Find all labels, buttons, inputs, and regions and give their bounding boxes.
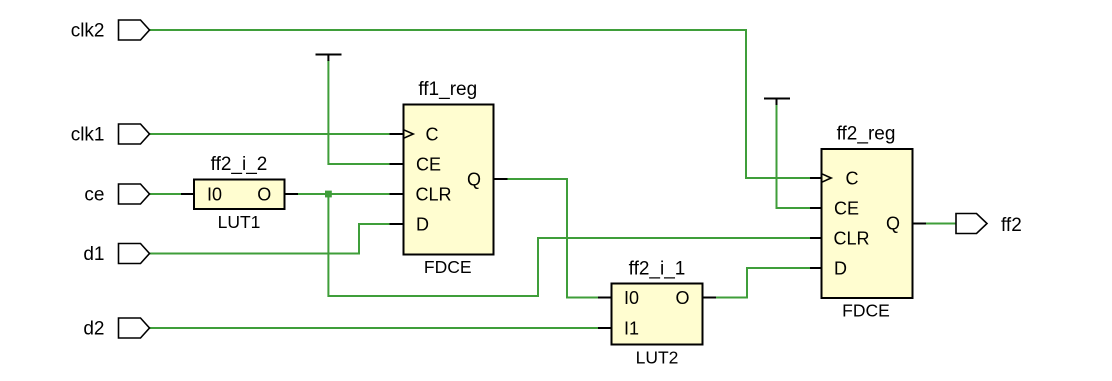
svg-text:CE: CE	[416, 155, 441, 175]
pin stub CLR	[390, 193, 404, 195]
input port clk2	[71, 20, 150, 42]
svg-text:C: C	[846, 169, 859, 189]
svg-text:D: D	[834, 259, 847, 279]
pin stub D	[390, 223, 404, 225]
input port clk1	[71, 124, 150, 146]
wire net d2 (port d2 to ff2_i_1 I1)	[150, 327, 599, 329]
wire branch ff2_i_2 output to ff2_reg CLR	[328, 194, 810, 296]
wire net ff2_i_1 O to ff2_reg D	[716, 268, 810, 298]
pin stub I0	[598, 297, 612, 299]
input port d1	[83, 244, 149, 266]
LUT ff2_i_2 (LUT1)	[181, 154, 298, 232]
svg-text:d1: d1	[83, 244, 104, 265]
svg-text:clk1: clk1	[71, 125, 105, 146]
wire net dangling T2 to ff2_reg CE	[777, 104, 811, 208]
wire net d1 (port d1 to ff1_reg D)	[150, 224, 390, 254]
svg-text:FDCE: FDCE	[842, 301, 890, 321]
pin stub I1	[598, 327, 612, 329]
svg-text:ff2_reg: ff2_reg	[837, 124, 896, 145]
input port d2	[83, 318, 149, 340]
clock pin marker	[404, 130, 414, 139]
svg-text:O: O	[675, 288, 689, 308]
wire net clk1 (port clk1 to ff1_reg C)	[150, 133, 390, 135]
pin stub I0	[181, 193, 194, 195]
svg-text:d2: d2	[83, 319, 104, 340]
svg-text:LUT2: LUT2	[636, 348, 679, 368]
wire net ff1_reg Q to ff2_i_1 I0	[508, 179, 599, 298]
svg-text:FDCE: FDCE	[424, 257, 472, 277]
svg-text:LUT1: LUT1	[218, 212, 261, 232]
svg-text:C: C	[426, 125, 439, 145]
pin stub D	[810, 267, 822, 269]
wire net dangling T1 to ff1_reg CE	[328, 60, 389, 164]
svg-text:ff2_i_2: ff2_i_2	[211, 154, 268, 175]
pin stub Q	[913, 223, 927, 225]
pin stub CE	[810, 207, 822, 209]
output port ff2	[956, 214, 1022, 237]
pin stub O	[703, 297, 717, 299]
svg-text:I1: I1	[624, 319, 639, 339]
svg-text:Q: Q	[886, 213, 900, 233]
svg-text:D: D	[416, 215, 429, 235]
wire net ce (port ce to LUT1 I0)	[150, 193, 182, 195]
svg-text:ff2: ff2	[1001, 215, 1022, 236]
svg-text:ff1_reg: ff1_reg	[418, 79, 477, 100]
wire net clk2 (port clk2 to ff2_reg C)	[150, 30, 811, 178]
svg-text:CLR: CLR	[834, 229, 870, 249]
svg-text:CE: CE	[834, 199, 859, 219]
LUT ff2_i_1 (LUT2)	[598, 259, 716, 368]
junction dot on net ce_OBUF	[325, 191, 332, 198]
input port ce	[84, 184, 149, 206]
wire net ff2 (ff2_reg Q to port ff2)	[926, 223, 956, 225]
pin stub CLR	[810, 237, 822, 239]
svg-text:CLR: CLR	[416, 185, 452, 205]
flip-flop ff2_reg (FDCE)	[810, 124, 926, 321]
clock pin marker	[822, 174, 832, 183]
svg-text:ce: ce	[84, 185, 104, 206]
pin stub Q	[494, 178, 508, 180]
svg-text:ff2_i_1: ff2_i_1	[629, 259, 686, 280]
pin stub C	[810, 177, 822, 179]
pin stub O	[285, 193, 299, 195]
dangling net terminator T1	[316, 55, 342, 62]
pin stub CE	[390, 163, 404, 165]
svg-text:I0: I0	[624, 288, 639, 308]
svg-text:Q: Q	[467, 169, 481, 189]
wire net ff2_i_2 output to ff1_reg CLR	[298, 193, 390, 195]
svg-text:clk2: clk2	[71, 21, 105, 42]
pin stub C	[390, 133, 404, 135]
flip-flop ff1_reg (FDCE)	[390, 79, 508, 277]
svg-text:O: O	[257, 185, 271, 205]
svg-text:I0: I0	[207, 185, 222, 205]
dangling net terminator T2	[764, 99, 790, 106]
